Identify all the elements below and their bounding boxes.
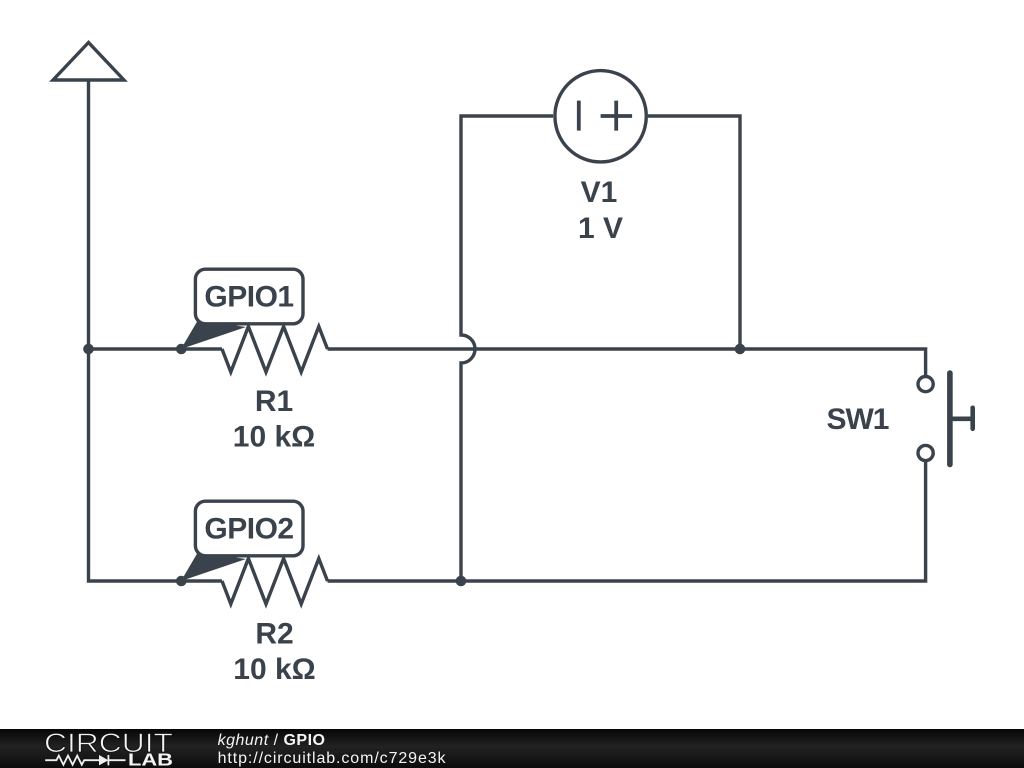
junction dot GPIO1 attach [176,344,187,355]
svg-text:10 kΩ: 10 kΩ [233,421,315,454]
switch SW1 bottom terminal [918,445,933,460]
svg-text:R2: R2 [255,618,293,651]
resistor R2 zigzag [222,559,328,605]
node flag GPIO1 box [195,269,303,324]
power flag antenna symbol [53,43,124,81]
svg-text:kghunt / GPIO: kghunt / GPIO [218,732,326,749]
V1 minus bar [577,101,581,131]
logo circuit line with resistor and diode [45,755,125,765]
switch SW1 top terminal [918,377,933,392]
svg-text:V1: V1 [581,176,618,209]
junction dot V1 right lead on row1 [735,344,746,355]
junction dot GPIO2 attach [176,576,187,587]
svg-text:GPIO1: GPIO1 [204,281,293,314]
svg-text:LAB: LAB [128,750,173,768]
resistor R1 zigzag [222,327,328,373]
wire left vertical and bottom-left segment [89,80,223,581]
node flag GPIO1 pointer [181,320,246,349]
junction dot V1 left lead on bottom rail [456,576,467,587]
node flag GPIO2 box [195,501,303,556]
svg-text:GPIO2: GPIO2 [204,513,293,546]
switch SW1 plunger bar [947,373,953,465]
switch SW1 actuator tee [970,408,975,429]
junction dot at left rail row1 [83,344,94,355]
svg-text:R1: R1 [255,385,293,418]
wire V1 left lead with hop over row1 [461,116,553,581]
svg-text:10 kΩ: 10 kΩ [233,653,315,686]
wire row1 right segment to switch top [328,349,926,376]
svg-text:http://circuitlab.com/c729e3k: http://circuitlab.com/c729e3k [218,750,447,767]
node flag GPIO2 pointer [181,552,246,581]
svg-text:SW1: SW1 [826,403,888,436]
wire row1 left segment [89,347,223,350]
footer bar [0,729,1024,768]
V1 plus sign [601,101,633,131]
voltage source V1 body [555,71,646,162]
wire bottom right segment to switch bottom [328,461,926,581]
svg-text:1 V: 1 V [578,212,623,245]
wire V1 right lead down to row1 [648,116,740,349]
switch SW1 actuator stem [950,416,973,421]
